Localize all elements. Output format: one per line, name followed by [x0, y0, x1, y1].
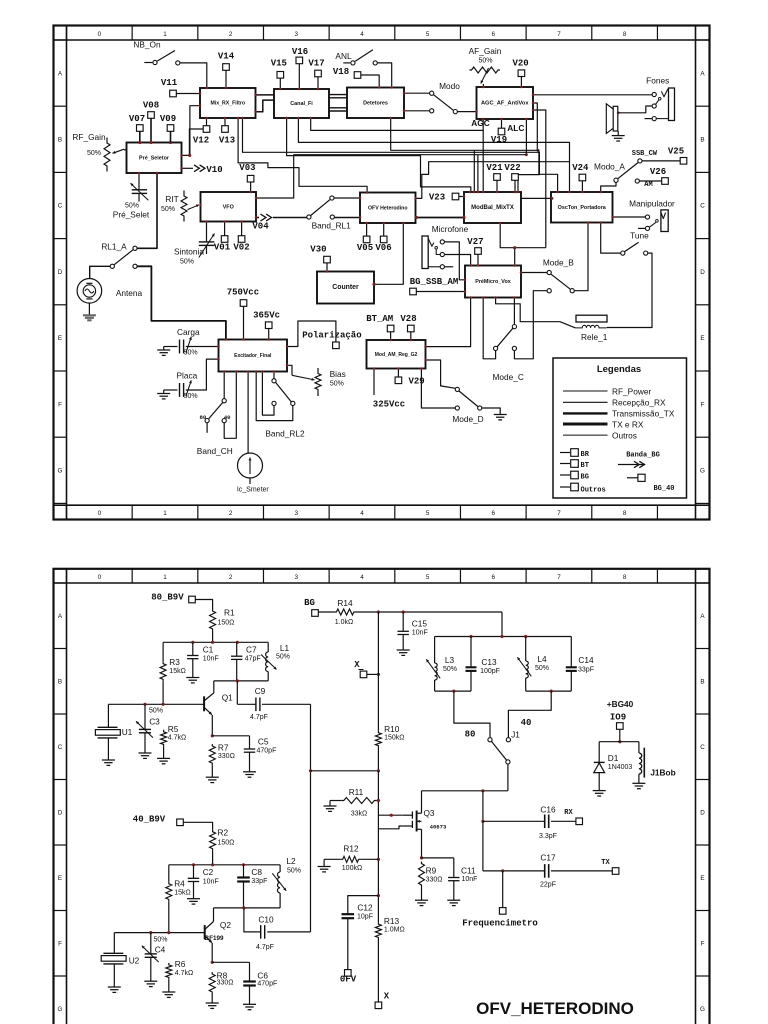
node V04 output arrow: [252, 214, 306, 231]
wire V17 stem: [317, 77, 319, 89]
svg-text:7: 7: [557, 574, 561, 581]
svg-text:C: C: [700, 203, 705, 210]
svg-text:0: 0: [98, 31, 102, 38]
port V02: [233, 236, 249, 253]
svg-text:C1: C1: [203, 644, 214, 654]
transistor Q3 dual-gate MOSFET: [403, 791, 447, 858]
svg-text:80: 80: [200, 414, 207, 421]
wire V23 to ModBal: [459, 196, 464, 198]
svg-text:470pF: 470pF: [257, 747, 277, 754]
svg-text:Antena: Antena: [116, 288, 143, 298]
svg-text:10pF: 10pF: [357, 913, 373, 920]
svg-text:150kΩ: 150kΩ: [384, 734, 404, 741]
svg-text:1.0MΩ: 1.0MΩ: [384, 926, 405, 933]
svg-text:BT_AM: BT_AM: [366, 314, 393, 324]
svg-text:ModBal_MixTX: ModBal_MixTX: [471, 205, 514, 211]
legend symbol BG_40: [627, 474, 675, 493]
wire Microfone tip to PreMicro: [445, 242, 466, 280]
svg-text:F: F: [701, 401, 705, 408]
port V30: [310, 244, 330, 263]
svg-text:V09: V09: [160, 114, 176, 124]
wire gate1 to rail: [378, 814, 402, 817]
svg-text:50%: 50%: [184, 350, 198, 357]
potentiometer AF_Gain: [469, 46, 502, 87]
svg-text:+BG40: +BG40: [607, 699, 634, 709]
wire V02 stem: [241, 222, 243, 236]
wire Band_RL2 return 1: [262, 372, 274, 416]
wire RL1_A to Excitador_Final: [137, 266, 226, 339]
wire tank2 bottom: [526, 690, 572, 693]
svg-text:50%: 50%: [184, 393, 198, 400]
svg-text:BG_40: BG_40: [653, 485, 674, 493]
block Counter: [317, 272, 374, 304]
svg-text:B: B: [58, 678, 62, 685]
svg-text:RF_Gain: RF_Gain: [72, 132, 106, 142]
legend symbol Banda_BG: [618, 452, 660, 468]
wire Band_RL2 return 2: [256, 372, 293, 421]
variable capacitor Placa: [167, 371, 198, 401]
switch Band_RL2: [265, 372, 305, 439]
svg-text:8: 8: [623, 510, 627, 517]
jack Manipulador: [613, 198, 676, 231]
port V01: [214, 236, 231, 253]
svg-text:Tune: Tune: [630, 230, 649, 240]
svg-text:V28: V28: [400, 314, 416, 324]
svg-text:V30: V30: [310, 244, 326, 254]
wire NB_On to Mix_RX_Filtro: [180, 63, 207, 88]
svg-text:V01: V01: [214, 243, 231, 253]
block Excitador_Final: [219, 340, 288, 372]
port V21: [486, 163, 503, 180]
ground at U2: [108, 987, 121, 992]
jack Microfone: [422, 224, 469, 269]
capacitor C1: [187, 642, 219, 677]
svg-text:BR: BR: [581, 451, 590, 459]
capacitor C6: [212, 962, 277, 1004]
ground at Placa: [157, 390, 170, 399]
variable capacitor Pre_Selet: [113, 173, 150, 220]
wire IO9 to rail: [618, 729, 621, 743]
svg-text:Q2: Q2: [220, 920, 231, 930]
ground at D1: [593, 791, 606, 796]
resistor R10: [375, 724, 404, 771]
svg-text:3: 3: [295, 574, 299, 581]
svg-text:2: 2: [229, 510, 233, 517]
wire Mix_RX_Filtro to Canal_Fi upper: [256, 94, 275, 96]
svg-text:V15: V15: [271, 59, 287, 69]
svg-text:330Ω: 330Ω: [217, 980, 234, 987]
port V15: [271, 59, 287, 78]
svg-text:C5: C5: [258, 736, 269, 746]
svg-text:V29: V29: [408, 377, 424, 387]
svg-text:Legendas: Legendas: [597, 364, 641, 375]
wire Pre_Seletor to RL1_A: [137, 173, 157, 248]
svg-text:V10: V10: [206, 165, 222, 175]
transistor Q1: [204, 681, 233, 736]
svg-text:10nF: 10nF: [462, 876, 478, 883]
wire 750Vcc stem: [243, 306, 245, 339]
wire Q3 source: [420, 856, 454, 859]
port BT_AM: [366, 314, 394, 332]
block Mix_RX_Filtro: [200, 88, 256, 118]
svg-text:R2: R2: [218, 827, 229, 837]
svg-text:F: F: [58, 940, 62, 947]
wire Canal_Fi to OscTon bus: [298, 118, 569, 192]
capacitor C5: [212, 736, 276, 772]
svg-text:C15: C15: [412, 618, 428, 628]
capacitor C16: [483, 804, 576, 840]
svg-text:V13: V13: [219, 136, 235, 146]
svg-text:0FV: 0FV: [340, 975, 357, 985]
wire Q3 drain rail: [422, 789, 508, 792]
svg-text:3.3pF: 3.3pF: [539, 833, 557, 840]
relay Rele_1: [575, 315, 607, 342]
wire V11 to Mix_RX_Filtro: [177, 93, 201, 95]
svg-text:10nF: 10nF: [203, 878, 219, 885]
svg-text:4: 4: [360, 31, 364, 38]
sheet 2 border frame: [54, 569, 710, 1024]
svg-text:365Vc: 365Vc: [253, 311, 280, 321]
block VFO: [201, 192, 257, 222]
wire D1 rail: [599, 741, 639, 743]
wire V27 stem: [477, 254, 479, 265]
switch J1: [465, 718, 532, 764]
svg-text:OscTon_Portadora: OscTon_Portadora: [558, 205, 607, 211]
svg-text:AGC_AF_AntiVox: AGC_AF_AntiVox: [481, 101, 529, 107]
wire V15 stem: [279, 78, 281, 89]
svg-text:Counter: Counter: [332, 284, 359, 291]
wire BG to R14: [318, 611, 334, 613]
svg-text:V11: V11: [161, 78, 178, 88]
wire main 9V rail: [356, 610, 502, 613]
wire Detetores to OscTon left bus: [391, 118, 558, 192]
svg-text:150Ω: 150Ω: [218, 619, 235, 626]
svg-text:V24: V24: [572, 163, 589, 173]
port IO9: [610, 712, 626, 729]
svg-text:330Ω: 330Ω: [426, 876, 443, 883]
wire R12 to gate: [361, 858, 379, 860]
svg-text:RF_Power: RF_Power: [612, 386, 651, 396]
svg-text:C11: C11: [461, 865, 476, 875]
wire R11 to gate: [376, 799, 380, 802]
svg-text:C16: C16: [540, 804, 556, 814]
variable capacitor Sintonia: [174, 222, 214, 266]
wire Mode_D left return: [421, 369, 455, 409]
svg-text:50%: 50%: [161, 206, 175, 213]
wire BT_AM stem: [390, 332, 392, 340]
wire Placa to Excitador: [186, 359, 219, 390]
wire V14 to Mix_RX_Filtro: [225, 71, 227, 89]
port V23: [429, 193, 459, 203]
svg-text:G: G: [58, 1006, 63, 1013]
svg-text:325Vcc: 325Vcc: [373, 400, 405, 410]
wire Band_RL1 to OFV upper: [334, 197, 360, 199]
svg-text:RL1_A: RL1_A: [101, 242, 127, 252]
svg-text:470pF: 470pF: [257, 981, 277, 988]
svg-text:D: D: [700, 809, 705, 816]
svg-text:10nF: 10nF: [412, 629, 428, 636]
wire X node rail: [311, 769, 381, 772]
svg-text:Mode_B: Mode_B: [543, 258, 574, 268]
svg-text:Detetores: Detetores: [363, 100, 388, 106]
block ModBal_MixTX: [464, 192, 521, 223]
resistor R5: [161, 724, 187, 759]
svg-text:10nF: 10nF: [203, 656, 219, 663]
svg-text:BT: BT: [581, 462, 589, 470]
svg-text:Mod_AM_Reg_G2: Mod_AM_Reg_G2: [375, 352, 418, 358]
legend box Legendas: [553, 358, 687, 498]
wire Mix_RX bus lower: [238, 118, 367, 193]
svg-text:2: 2: [229, 574, 233, 581]
svg-text:Mode_C: Mode_C: [493, 372, 524, 382]
resistor R9: [419, 862, 443, 901]
svg-text:6: 6: [492, 510, 496, 517]
svg-text:80: 80: [465, 729, 476, 739]
wire Mix_RX bus upper: [243, 118, 540, 192]
svg-text:V16: V16: [292, 47, 308, 57]
wire RL1_A to antenna: [90, 266, 110, 279]
svg-text:1.0kΩ: 1.0kΩ: [335, 619, 353, 626]
wire V20 stem: [520, 77, 522, 87]
legend symbol BR: [560, 449, 590, 459]
port V13: [219, 126, 235, 146]
svg-text:Sintonia: Sintonia: [174, 246, 204, 256]
svg-text:G: G: [58, 468, 63, 475]
wire Mix_RX_Filtro pin to V12 node: [188, 106, 200, 157]
svg-text:V05: V05: [357, 243, 373, 253]
wire to Frequencimetro: [501, 869, 504, 907]
port X upper: [354, 660, 367, 678]
svg-text:Microfone: Microfone: [432, 224, 469, 234]
svg-text:50%: 50%: [153, 936, 167, 943]
svg-text:B: B: [700, 678, 704, 685]
svg-text:Band_RL1: Band_RL1: [312, 220, 352, 230]
resistor R12: [324, 843, 362, 872]
svg-text:C6: C6: [257, 970, 268, 980]
wire V16 stem: [298, 64, 300, 89]
wire gate vertical lower: [377, 771, 380, 922]
svg-text:0: 0: [98, 574, 102, 581]
wire J1 pole to drain rail: [507, 764, 509, 791]
svg-text:Carga: Carga: [177, 327, 200, 337]
svg-text:BF199: BF199: [205, 935, 224, 942]
port BG: [304, 598, 318, 617]
potentiometer RF_Gain: [72, 132, 126, 172]
svg-text:G: G: [700, 1006, 705, 1013]
svg-text:50%: 50%: [180, 258, 194, 265]
capacitor C17: [483, 852, 612, 888]
switch Tune: [621, 230, 649, 255]
variable inductor L4: [517, 637, 549, 692]
port V17: [308, 59, 324, 77]
svg-text:F: F: [58, 401, 62, 408]
svg-text:V23: V23: [429, 193, 445, 203]
legend line Recepcao_RX: [563, 398, 666, 408]
resistor R3: [160, 642, 186, 703]
svg-text:L1: L1: [280, 643, 290, 653]
wire Excitador to Polarizacao: [287, 321, 336, 347]
wire V09 stem: [170, 132, 172, 143]
port Polarizacao: [302, 330, 361, 348]
wire Canal_Fi lower bus to ModBal: [287, 118, 471, 192]
crystal U2: [101, 933, 139, 987]
wire Pre_Seletor to V12: [182, 129, 204, 155]
svg-text:Modo_A: Modo_A: [594, 161, 625, 171]
ground at C6: [243, 1004, 256, 1009]
switch Modo: [404, 81, 460, 114]
svg-text:V21: V21: [486, 163, 503, 173]
svg-text:2: 2: [229, 31, 233, 38]
svg-text:V22: V22: [504, 163, 520, 173]
svg-text:C8: C8: [251, 867, 262, 877]
port V25: [668, 146, 687, 164]
svg-text:8: 8: [623, 31, 627, 38]
wire Q1 top rail: [163, 641, 268, 644]
svg-text:Fones: Fones: [646, 76, 669, 86]
capacitor C10: [244, 908, 311, 951]
wire PreMicro to Rele_1: [496, 298, 576, 328]
svg-text:RIT: RIT: [165, 194, 178, 204]
switch Band_CH: [197, 372, 233, 456]
svg-text:Banda_BG: Banda_BG: [626, 452, 660, 460]
resistor R8: [209, 961, 233, 1003]
svg-text:15kΩ: 15kΩ: [174, 889, 191, 896]
svg-text:V27: V27: [467, 237, 483, 247]
title OFV_HETERODINO: [476, 999, 634, 1018]
svg-text:40_B9V: 40_B9V: [133, 814, 166, 824]
svg-text:80_B9V: 80_B9V: [151, 592, 184, 602]
sheet 1 border frame: [54, 26, 710, 520]
svg-text:1N4003: 1N4003: [608, 764, 633, 771]
svg-text:V26: V26: [650, 167, 666, 177]
svg-text:C17: C17: [540, 852, 556, 862]
svg-text:PréMicro_Vox: PréMicro_Vox: [475, 279, 511, 285]
wire C9/C10 junction vertical: [309, 704, 312, 932]
port V20: [512, 59, 528, 77]
svg-text:SSB_CW: SSB_CW: [632, 150, 658, 158]
ground at R12: [318, 867, 331, 872]
svg-text:V12: V12: [193, 136, 209, 146]
port V11: [161, 78, 178, 97]
port V06: [375, 236, 391, 253]
svg-text:Outros: Outros: [612, 430, 637, 440]
svg-text:B: B: [700, 137, 704, 144]
svg-text:R1: R1: [224, 607, 235, 617]
wire Mod_AM to Mode_D: [426, 360, 456, 388]
block OscTon_Portadora: [551, 192, 613, 223]
ground at C1: [186, 678, 199, 683]
ground at C4: [144, 981, 157, 986]
node V10 output arrow: [182, 165, 223, 175]
svg-text:4.7kΩ: 4.7kΩ: [175, 970, 193, 977]
svg-text:Frequencimetro: Frequencimetro: [462, 918, 538, 928]
svg-text:D: D: [58, 269, 63, 276]
switch Mode_C: [493, 325, 524, 383]
svg-text:Bias: Bias: [330, 369, 346, 379]
svg-text:E: E: [700, 335, 704, 342]
wire Mix_RX_Filtro to Canal_Fi lower: [256, 100, 275, 112]
svg-text:50%: 50%: [535, 665, 549, 672]
block pin dots: [138, 86, 614, 373]
svg-text:V18: V18: [333, 67, 349, 77]
port V09: [160, 114, 176, 131]
switch contact AM: [635, 179, 661, 189]
svg-text:5: 5: [426, 31, 430, 38]
port V19: [491, 119, 507, 145]
svg-text:L2: L2: [286, 856, 296, 866]
block Detetores: [347, 88, 404, 119]
svg-text:100kΩ: 100kΩ: [342, 865, 362, 872]
svg-text:C12: C12: [357, 902, 373, 912]
wire AGC net to Canal_Fi: [311, 118, 490, 130]
capacitor C13: [466, 637, 500, 692]
legend line Transmissao_TX: [563, 409, 675, 419]
wire SSB_CW contact to V25: [642, 160, 680, 162]
svg-text:R12: R12: [343, 843, 359, 853]
svg-text:33kΩ: 33kΩ: [351, 810, 368, 817]
svg-text:E: E: [58, 335, 62, 342]
port V18: [333, 67, 361, 78]
wire AGC to Fones jack: [533, 94, 652, 96]
variable capacitor Carga: [167, 327, 219, 357]
wire 40_B9V to R2: [183, 822, 212, 829]
svg-text:C: C: [58, 744, 63, 751]
svg-text:50%: 50%: [125, 203, 139, 210]
svg-text:330Ω: 330Ω: [218, 753, 235, 760]
port V22: [504, 163, 520, 180]
wire 365Vc stem: [268, 329, 270, 340]
svg-text:R7: R7: [218, 743, 229, 753]
legend symbol BT: [560, 460, 589, 470]
ground below speaker: [612, 136, 625, 141]
svg-text:J1Bob: J1Bob: [650, 767, 675, 777]
wire tank1 to J1 80 contact: [454, 691, 490, 738]
svg-text:50%: 50%: [149, 708, 163, 715]
block OFV Heterodino: [360, 193, 416, 224]
wire AGC bottom pin to OscTon: [525, 119, 528, 156]
switch NB_On: [133, 40, 180, 66]
svg-text:Modo: Modo: [439, 81, 460, 91]
svg-text:Pré_Selet: Pré_Selet: [113, 210, 150, 220]
wire ALC vertical to ModBal: [482, 130, 484, 192]
svg-text:NB_On: NB_On: [133, 40, 161, 50]
svg-text:G: G: [700, 468, 705, 475]
port TX: [601, 859, 619, 874]
wire V08 stem: [138, 119, 172, 145]
wire C16 node to C17 line: [482, 821, 484, 871]
wire 80_B9V to R1: [195, 600, 212, 610]
svg-text:Outros: Outros: [581, 487, 606, 495]
svg-text:Canal_Fi: Canal_Fi: [290, 101, 313, 107]
port V27: [467, 237, 483, 254]
ground at C2: [187, 899, 200, 904]
svg-text:Rele_1: Rele_1: [581, 332, 608, 342]
resistor R11: [330, 787, 376, 818]
svg-text:ANL: ANL: [335, 51, 352, 61]
svg-text:V03: V03: [239, 163, 255, 173]
svg-text:4: 4: [360, 510, 364, 517]
svg-text:V25: V25: [668, 146, 684, 156]
wire Q1 tank bottom rail: [214, 679, 268, 682]
port V03: [239, 163, 255, 182]
svg-text:R14: R14: [337, 598, 353, 608]
svg-text:4: 4: [360, 574, 364, 581]
svg-text:R10: R10: [384, 724, 400, 734]
svg-text:F: F: [701, 940, 705, 947]
wire Band_RL1 to OFV lower: [335, 217, 361, 219]
port 365Vc: [253, 311, 280, 329]
svg-text:TX: TX: [601, 859, 610, 867]
